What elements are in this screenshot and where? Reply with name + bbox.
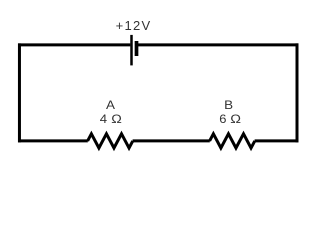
wire bottom-left segment — [18, 139, 88, 142]
svg-text:Ω: Ω — [111, 112, 122, 126]
battery V1 short plate — [135, 41, 139, 56]
svg-text:B: B — [224, 97, 233, 111]
svg-text:6: 6 — [219, 112, 226, 125]
resistor A — [88, 134, 133, 148]
wire bottom-right segment — [255, 139, 299, 142]
wire top-right segment — [137, 43, 299, 46]
svg-text:Ω: Ω — [230, 112, 241, 126]
wire top-left segment — [18, 43, 130, 46]
wire left vertical — [18, 43, 21, 142]
wire right vertical — [296, 43, 299, 142]
svg-text:4: 4 — [100, 112, 107, 125]
wire bottom-middle segment — [133, 139, 210, 142]
resistor B — [210, 134, 255, 148]
svg-text:+12V: +12V — [116, 18, 152, 33]
battery V1 long plate — [130, 35, 133, 66]
svg-text:A: A — [106, 97, 115, 111]
